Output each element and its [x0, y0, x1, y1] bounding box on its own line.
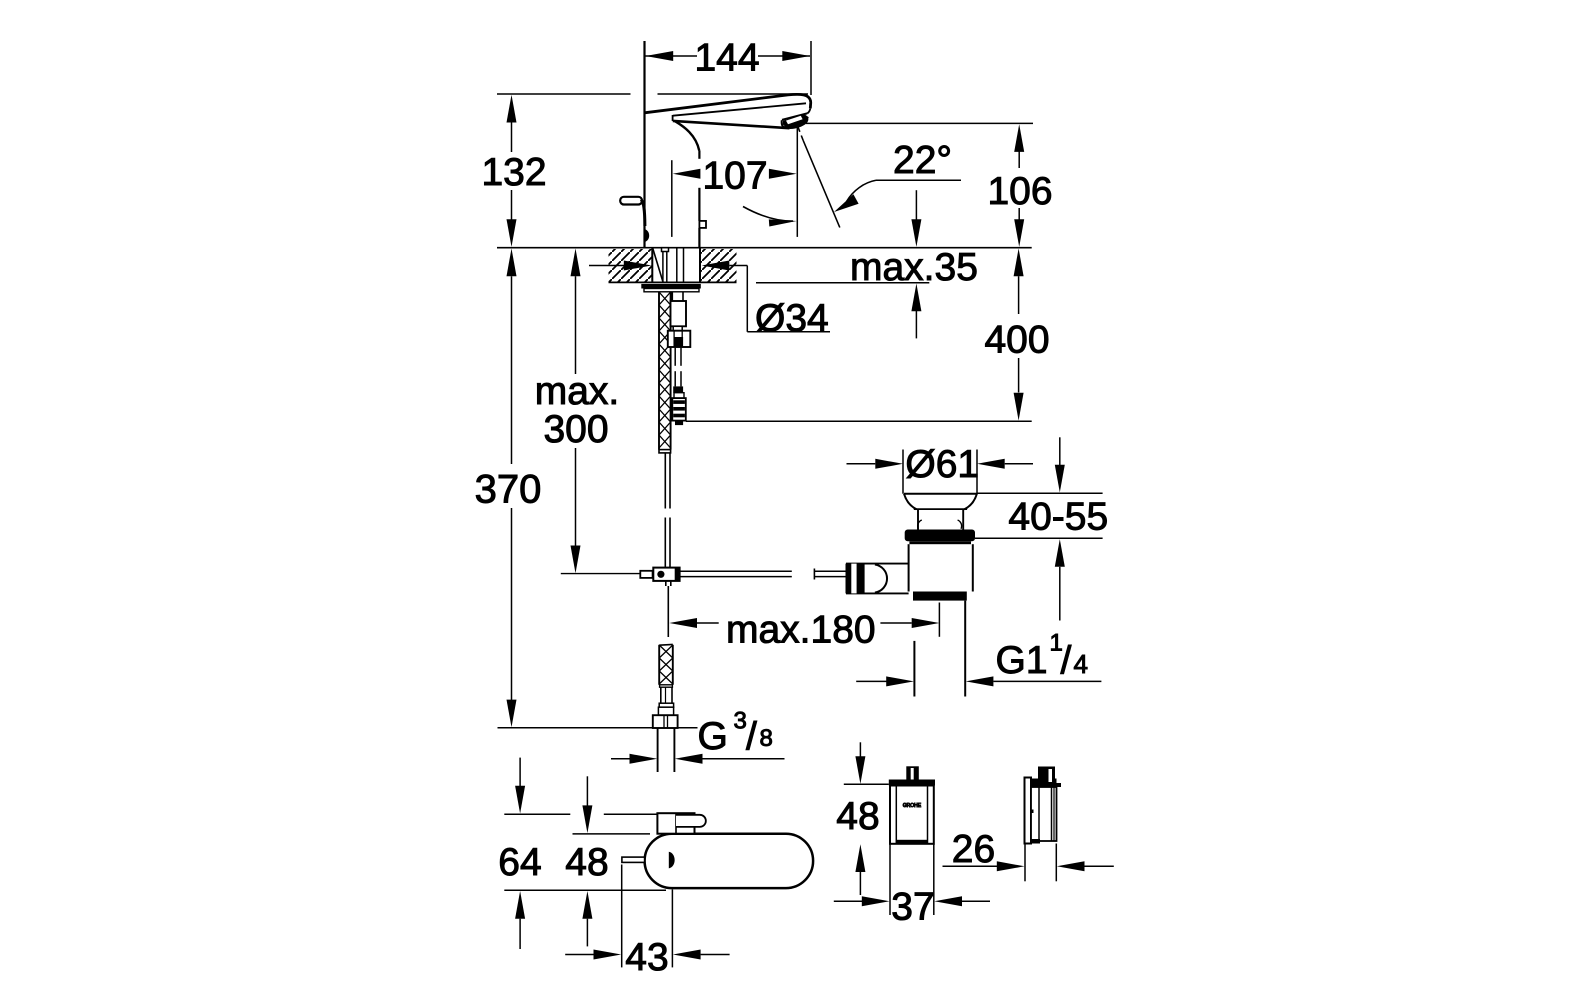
- svg-text:43: 43: [625, 936, 668, 979]
- svg-text:107: 107: [702, 155, 767, 198]
- svg-text:48: 48: [836, 795, 879, 838]
- svg-text:8: 8: [760, 725, 773, 752]
- svg-text:106: 106: [987, 170, 1052, 213]
- svg-text:300: 300: [543, 408, 608, 451]
- svg-text:144: 144: [694, 37, 759, 80]
- svg-text:Ø34: Ø34: [755, 297, 829, 340]
- svg-text:/: /: [746, 715, 757, 758]
- svg-text:22°: 22°: [893, 139, 952, 182]
- svg-text:G: G: [698, 715, 728, 758]
- svg-text:3: 3: [734, 708, 747, 735]
- svg-text:max.: max.: [535, 370, 620, 413]
- svg-text:37: 37: [891, 886, 934, 929]
- svg-text:GROHE: GROHE: [903, 803, 922, 809]
- svg-text:/: /: [1061, 640, 1072, 683]
- svg-text:G1: G1: [996, 639, 1048, 682]
- svg-text:132: 132: [481, 151, 546, 194]
- svg-text:4: 4: [1074, 649, 1088, 679]
- svg-text:40-55: 40-55: [1008, 496, 1108, 539]
- svg-text:48: 48: [565, 841, 608, 884]
- svg-text:max.180: max.180: [726, 609, 876, 652]
- svg-text:26: 26: [952, 828, 995, 871]
- svg-text:max.35: max.35: [850, 246, 978, 289]
- svg-text:370: 370: [475, 468, 542, 512]
- svg-text:64: 64: [498, 841, 541, 884]
- svg-text:Ø61: Ø61: [905, 443, 979, 486]
- svg-text:400: 400: [984, 319, 1049, 362]
